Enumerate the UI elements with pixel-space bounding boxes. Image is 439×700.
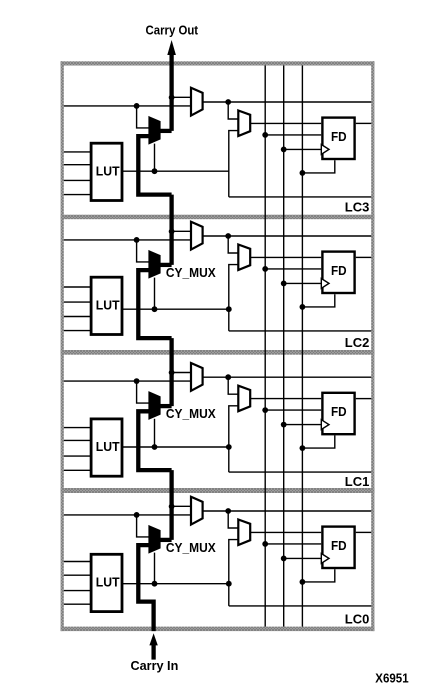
LC0 LUT input wire 2 <box>64 574 91 576</box>
LC0 input signal wire <box>64 514 191 516</box>
LC2 wire to right border <box>229 330 371 332</box>
LC1 output mux output wire <box>203 376 372 378</box>
LC3 input signal wire <box>64 105 191 107</box>
LC1 junction on LUT output <box>152 444 158 450</box>
LC1 carry-in wire from cell below <box>138 411 171 470</box>
LC1 wire LUT output to bypass mux lower input <box>229 406 239 472</box>
LC1 junction LUT output to bypass feed <box>226 444 232 450</box>
LC2 output mux <box>191 222 203 250</box>
LC2 carry-in wire from cell below <box>138 270 171 338</box>
LC0 junction on output mux wire <box>225 508 231 514</box>
LC1 LUT output wire <box>123 446 230 448</box>
frame top border <box>61 61 375 65</box>
LC2 junction on output mux wire <box>225 233 231 239</box>
LC1 wire bus1 to FD input <box>265 409 321 411</box>
LC2 output mux output wire <box>203 235 372 237</box>
LC3 wire bus1 to FD input <box>265 134 321 136</box>
LC2 bypass mux <box>238 245 250 271</box>
LC3 flip-flop FD <box>322 118 354 159</box>
LC1 FD bottom wire to bus3 <box>302 435 334 448</box>
LC2 CY_MUX output carry wire <box>160 263 172 267</box>
frame bottom border <box>61 627 375 632</box>
LC3 junction on output mux wire <box>225 99 231 105</box>
carry out wire (LC3 to top) <box>169 52 173 131</box>
svg-text:Carry Out: Carry Out <box>146 22 199 37</box>
svg-text:LUT: LUT <box>96 575 120 590</box>
carry out arrowhead <box>167 40 176 55</box>
LC0 FD Q output wire <box>356 531 372 533</box>
LC0 wire bus2 to FD clock <box>284 557 322 559</box>
LC3 FD Q output wire <box>356 122 372 124</box>
LC3 carry mux CY_MUX <box>150 118 160 143</box>
LC2 wire bus2 to FD clock <box>284 282 322 284</box>
LC2 junction on input signal wire <box>134 237 140 243</box>
LC2 wire to CY_MUX 1-input <box>137 240 150 262</box>
LC0 carry-in wire from Carry In pin <box>138 545 153 631</box>
LC0 FD bottom wire to bus3 <box>302 569 334 582</box>
frame right border <box>371 61 374 631</box>
LC3 CY_MUX select wire <box>154 144 156 172</box>
LC3 wire carry tap to output mux <box>172 96 191 98</box>
LC0 wire LUT output to bypass mux lower input <box>229 540 239 606</box>
LC2 wire LUT output to bypass mux lower input <box>229 265 239 331</box>
bus line 3 <box>301 66 303 627</box>
LC0 bypass mux <box>238 520 250 546</box>
LC1 LUT input wire 2 <box>64 439 91 441</box>
svg-text:FD: FD <box>331 538 347 553</box>
LC2 carry mux CY_MUX <box>150 252 160 277</box>
LC1 FD Q output wire <box>356 398 372 400</box>
LC0 wire to bypass mux upper input <box>228 511 238 528</box>
LC1 wire to bypass mux upper input <box>228 377 238 394</box>
LC2 junction on carry line <box>169 229 175 235</box>
svg-text:X6951: X6951 <box>375 670 408 685</box>
carry wire LC1 to LC2 <box>169 338 173 406</box>
carry in arrowhead <box>149 633 157 645</box>
svg-text:FD: FD <box>331 263 347 278</box>
LC3 wire LUT output to bypass mux lower input <box>229 131 239 197</box>
LC0 LUT box <box>91 554 122 611</box>
LC2 wire bus1 to FD input <box>265 268 321 270</box>
LC3 LUT input wire 4 <box>64 194 91 196</box>
LC1 junction on bus2 <box>281 422 287 428</box>
LC1 wire carry tap to output mux <box>172 372 191 374</box>
svg-text:CY_MUX: CY_MUX <box>166 265 216 280</box>
LC1 junction on carry line <box>169 370 175 376</box>
svg-text:LUT: LUT <box>96 163 120 178</box>
svg-text:LC2: LC2 <box>345 335 370 350</box>
LC2 input signal wire <box>64 239 191 241</box>
LC2 bypass mux output wire to FD <box>250 256 321 258</box>
LC0 carry mux CY_MUX <box>150 527 160 552</box>
LC2 FD bottom wire to bus3 <box>302 294 334 307</box>
LC0 junction on LUT output <box>152 581 158 587</box>
LC2 junction on bus2 <box>281 281 287 287</box>
LC1 CY_MUX output carry wire <box>160 404 172 408</box>
LC1 LUT box <box>91 419 122 476</box>
frame divider below LC3 <box>61 215 375 220</box>
frame divider below LC1 <box>61 488 375 493</box>
LC1 junction on input signal wire <box>134 378 140 384</box>
LC0 wire bus1 to FD input <box>265 543 321 545</box>
LC3 junction on bus3 <box>300 170 306 176</box>
LC0 junction on input signal wire <box>134 512 140 518</box>
LC1 output mux <box>191 363 203 391</box>
LC0 flip-flop FD <box>322 527 354 568</box>
LC3 junction on bus2 <box>281 147 287 153</box>
svg-text:LUT: LUT <box>96 297 120 312</box>
LC2 CY_MUX select wire <box>154 278 156 310</box>
LC0 CY_MUX output carry wire <box>160 538 172 542</box>
svg-text:LC1: LC1 <box>345 474 370 489</box>
LC1 flip-flop FD <box>322 393 354 434</box>
LC1 wire bus2 to FD clock <box>284 424 322 426</box>
LC2 LUT input wire 1 <box>64 286 91 288</box>
LC2 LUT input wire 4 <box>64 330 91 332</box>
LC0 junction on bus2 <box>281 556 287 562</box>
LC3 junction on LUT output <box>152 168 158 174</box>
LC3 FD bottom wire to bus3 <box>302 160 334 173</box>
carry in wire stub <box>151 645 155 660</box>
LC1 LUT input wire 3 <box>64 455 91 457</box>
LC3 LUT box <box>91 143 122 200</box>
svg-text:LC3: LC3 <box>345 199 370 214</box>
LC3 output mux output wire <box>203 101 372 103</box>
LC0 junction on bus3 <box>300 579 306 585</box>
LC0 output mux <box>191 497 203 525</box>
svg-text:CY_MUX: CY_MUX <box>166 540 216 555</box>
LC1 CY_MUX select wire <box>154 419 156 447</box>
LC3 junction on input signal wire <box>134 103 140 109</box>
LC0 junction on carry line <box>169 504 175 510</box>
bus line 2 <box>283 66 285 627</box>
LC3 carry-in wire from cell below <box>138 136 171 195</box>
LC0 LUT input wire 3 <box>64 590 91 592</box>
LC2 LUT input wire 2 <box>64 301 91 303</box>
LC3 wire to bypass mux upper input <box>228 102 238 119</box>
svg-text:Carry In: Carry In <box>131 658 179 673</box>
LC2 wire carry tap to output mux <box>172 230 191 232</box>
LC0 wire to CY_MUX 1-input <box>137 515 150 537</box>
LC0 LUT output wire <box>123 583 230 585</box>
frame divider below LC2 <box>61 350 375 355</box>
LC0 wire to right border <box>229 605 371 607</box>
LC1 carry mux CY_MUX <box>150 393 160 418</box>
LC2 junction on LUT output <box>152 306 158 312</box>
LC3 output mux <box>191 88 203 116</box>
LC2 LUT box <box>91 277 122 334</box>
LC0 LUT input wire 1 <box>64 561 91 563</box>
frame left border <box>61 61 64 631</box>
LC3 junction on bus1 <box>262 132 268 138</box>
LC3 wire to CY_MUX 1-input <box>137 106 150 128</box>
LC3 wire to right border <box>229 196 371 198</box>
LC3 LUT input wire 1 <box>64 151 91 153</box>
LC0 junction on bus1 <box>262 541 268 547</box>
LC3 LUT input wire 2 <box>64 164 91 166</box>
LC3 LUT input wire 3 <box>64 179 91 181</box>
svg-text:FD: FD <box>331 404 347 419</box>
LC3 bypass mux <box>238 111 250 137</box>
bus line 1 <box>264 66 266 627</box>
LC2 wire to bypass mux upper input <box>228 236 238 253</box>
LC1 wire to right border <box>229 471 371 473</box>
svg-text:LC0: LC0 <box>345 612 370 627</box>
LC1 bypass mux output wire to FD <box>250 398 321 400</box>
LC2 FD Q output wire <box>356 256 372 258</box>
LC1 wire to CY_MUX 1-input <box>137 381 150 403</box>
LC1 LUT input wire 1 <box>64 427 91 429</box>
LC0 LUT input wire 4 <box>64 603 91 605</box>
LC3 bypass mux output wire to FD <box>250 122 321 124</box>
LC2 flip-flop FD <box>322 252 354 293</box>
LC2 junction on bus3 <box>300 304 306 310</box>
LC2 LUT output wire <box>123 308 230 310</box>
LC0 FD clock pin <box>321 554 329 564</box>
LC0 output mux output wire <box>203 510 372 512</box>
svg-text:LUT: LUT <box>96 439 120 454</box>
LC0 CY_MUX select wire <box>154 553 156 584</box>
LC3 LUT output wire <box>123 170 230 172</box>
LC3 wire bus2 to FD clock <box>284 148 322 150</box>
LC0 junction LUT output to bypass feed <box>226 581 232 587</box>
LC1 input signal wire <box>64 380 191 382</box>
LC1 junction on bus1 <box>262 407 268 413</box>
LC1 junction on output mux wire <box>225 374 231 380</box>
LC2 junction on bus1 <box>262 266 268 272</box>
LC3 CY_MUX output carry wire <box>160 129 172 133</box>
LC1 LUT input wire 4 <box>64 469 91 471</box>
LC1 bypass mux <box>238 386 250 412</box>
LC3 FD clock pin <box>321 145 329 155</box>
LC1 junction on bus3 <box>300 445 306 451</box>
carry wire LC2 to LC3 <box>169 195 173 265</box>
svg-text:CY_MUX: CY_MUX <box>166 406 216 421</box>
LC2 LUT input wire 3 <box>64 316 91 318</box>
carry wire LC0 to LC1 <box>169 470 173 540</box>
svg-text:FD: FD <box>331 129 347 144</box>
LC2 FD clock pin <box>321 279 329 289</box>
LC0 bypass mux output wire to FD <box>250 531 321 533</box>
LC0 wire carry tap to output mux <box>172 505 191 507</box>
LC2 junction LUT output to bypass feed <box>226 306 232 312</box>
LC1 FD clock pin <box>321 420 329 430</box>
LC3 junction on carry line <box>169 95 175 101</box>
